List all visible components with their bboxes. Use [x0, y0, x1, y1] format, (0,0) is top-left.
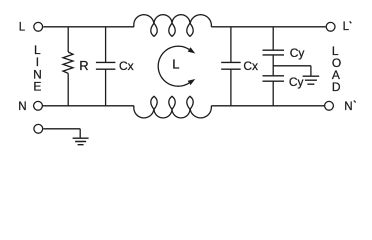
svg-text:Cy: Cy: [290, 46, 305, 60]
svg-text:L: L: [343, 21, 350, 33]
svg-text:N: N: [344, 101, 352, 113]
svg-text:E: E: [33, 80, 41, 94]
svg-text:Cy: Cy: [289, 75, 304, 89]
svg-text:D: D: [332, 80, 341, 94]
svg-text:Cx: Cx: [119, 59, 134, 73]
svg-text:Cx: Cx: [243, 59, 258, 73]
svg-text:L: L: [19, 22, 26, 34]
svg-text:R: R: [79, 58, 88, 73]
svg-text:N: N: [18, 101, 26, 113]
svg-text:L: L: [172, 57, 179, 72]
